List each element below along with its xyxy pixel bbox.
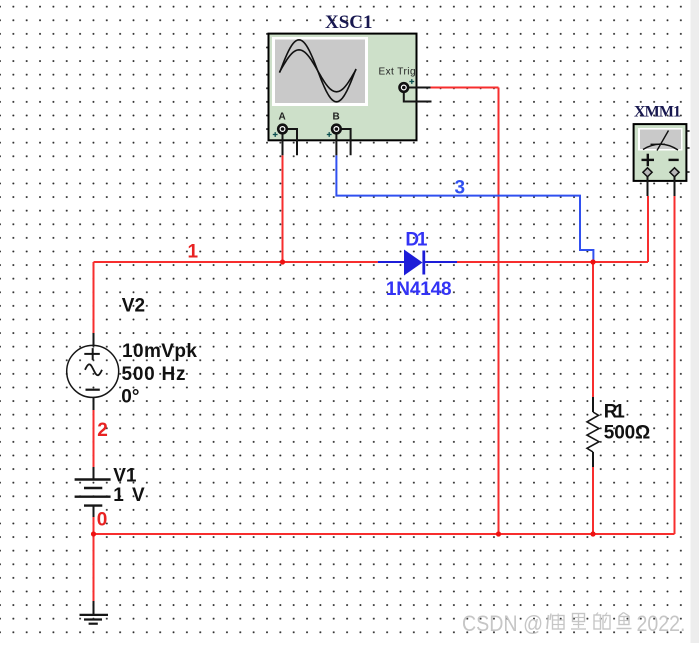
svg-text:1N4148: 1N4148 [386,279,452,300]
svg-text:2022.: 2022. [637,611,686,636]
svg-text:0°: 0° [121,387,139,408]
svg-text:1: 1 [188,241,199,262]
svg-text:CSDN @: CSDN @ [462,611,543,636]
svg-text:A: A [279,112,286,123]
svg-text:V2: V2 [122,296,145,317]
svg-text:0: 0 [97,510,108,531]
svg-text:500 Hz: 500 Hz [122,364,186,385]
svg-text:V1: V1 [113,465,137,486]
svg-text:XSC1: XSC1 [325,12,373,33]
svg-text:D1: D1 [405,229,427,250]
svg-text:10mVpk: 10mVpk [122,341,197,362]
svg-text:500Ω: 500Ω [604,423,650,444]
svg-text:2: 2 [97,420,108,441]
svg-text:Ext Trig: Ext Trig [379,67,416,78]
svg-text:B: B [333,112,340,123]
svg-text:1 V: 1 V [113,485,145,506]
svg-text:3: 3 [455,177,466,198]
svg-text:R1: R1 [604,401,625,422]
svg-text:XMM1: XMM1 [634,104,681,121]
